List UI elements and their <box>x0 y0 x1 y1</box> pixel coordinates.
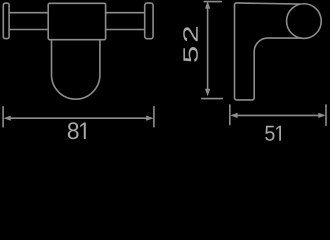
wire bar bottom-right segment <box>106 29 145 31</box>
dimension text 51 <box>265 126 281 141</box>
dimension line 81 <box>10 117 148 119</box>
extension line right of 81 dimension <box>153 107 155 127</box>
wire bar top-left segment <box>9 12 48 14</box>
wire bar top-right segment <box>106 12 145 14</box>
left end cap (front view) <box>3 3 9 38</box>
U-shaped hook loop (front view) <box>52 40 100 99</box>
extension tick top of 52 dimension <box>204 1 221 3</box>
dimension text 81 <box>68 122 86 139</box>
extension line right of 51 dimension <box>325 105 327 125</box>
dimension line 52 <box>207 8 209 90</box>
central body plate (front view) <box>48 3 105 39</box>
arrowhead right of 81 <box>146 116 154 121</box>
arrowhead right of 51 <box>318 113 326 118</box>
wall plate and arm outline (side view) <box>235 3 302 100</box>
wire bar bottom-left segment <box>9 29 48 31</box>
extension tick bottom of 52 dimension <box>202 98 223 100</box>
arrowhead left of 81 <box>3 116 11 121</box>
right end cap (front view) <box>145 3 153 39</box>
extension line left of 51 dimension <box>229 105 231 125</box>
arrowhead left of 51 <box>230 113 238 118</box>
extension line left of 81 dimension <box>2 107 4 127</box>
arrowhead top of 52 <box>205 1 210 9</box>
ball knob circle (side view) <box>287 4 322 39</box>
dimension line 51 <box>236 114 319 116</box>
dimension text 52 <box>183 27 198 62</box>
arrowhead bottom of 52 <box>205 89 210 97</box>
